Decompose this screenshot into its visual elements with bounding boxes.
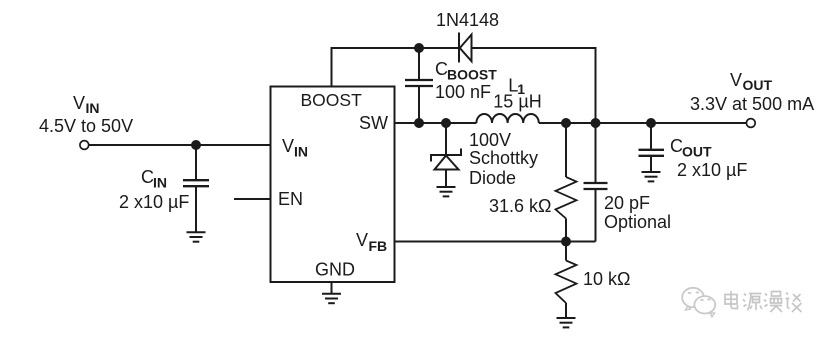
svg-text:OUT: OUT [743, 77, 773, 93]
svg-text:Schottky: Schottky [469, 148, 538, 168]
svg-text:100 nF: 100 nF [435, 82, 491, 102]
svg-text:Diode: Diode [469, 168, 516, 188]
svg-text:31.6 kΩ: 31.6 kΩ [489, 196, 552, 216]
svg-text:EN: EN [278, 189, 303, 209]
svg-text:SW: SW [359, 113, 388, 133]
svg-text:1N4148: 1N4148 [436, 10, 499, 30]
svg-text:IN: IN [86, 100, 100, 116]
svg-text:20 pF: 20 pF [604, 193, 650, 213]
svg-text:BOOST: BOOST [447, 67, 497, 83]
svg-text:GND: GND [315, 260, 355, 280]
svg-text:15 µH: 15 µH [493, 92, 541, 112]
svg-text:V: V [356, 230, 368, 250]
svg-text:IN: IN [294, 144, 308, 160]
svg-text:V: V [282, 136, 294, 156]
svg-text:FB: FB [369, 238, 388, 254]
svg-text:IN: IN [153, 175, 167, 191]
svg-text:4.5V to 50V: 4.5V to 50V [39, 116, 133, 136]
svg-text:BOOST: BOOST [301, 90, 363, 110]
svg-text:2 x10 µF: 2 x10 µF [119, 192, 189, 212]
svg-text:V: V [730, 70, 742, 90]
svg-text:2 x10 µF: 2 x10 µF [677, 160, 747, 180]
svg-text:Optional: Optional [604, 212, 671, 232]
svg-text:3.3V at 500 mA: 3.3V at 500 mA [690, 94, 814, 114]
svg-text:OUT: OUT [682, 144, 712, 160]
svg-text:10 kΩ: 10 kΩ [583, 269, 630, 289]
svg-text:V: V [73, 93, 85, 113]
